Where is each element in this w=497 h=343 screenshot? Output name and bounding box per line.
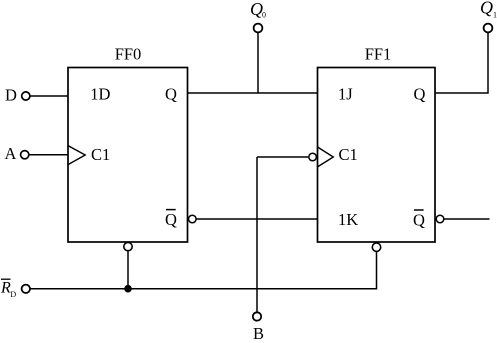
input terminal B [253,312,264,343]
wire A to FF0 clock [29,154,68,156]
svg-text:FF0: FF0 [115,45,142,64]
wire FF0 reset to RD line [127,251,129,289]
svg-text:Q: Q [414,84,426,103]
wire D to FF0 1D pin [30,95,68,97]
input terminal A [5,144,29,163]
wire RD riser to FF1 reset [376,251,378,289]
inversion bubble FF1 clock [309,153,317,161]
svg-text:Q: Q [165,210,177,229]
svg-text:C1: C1 [91,145,110,164]
pin label Qbar (FF0) [165,210,177,230]
wire Q0 stem [257,32,259,93]
svg-text:1K: 1K [338,210,358,229]
inversion bubble FF0 reset [124,242,132,250]
clock triangle FF1 [318,147,334,167]
flip-flop FF0 body [68,68,188,243]
flip-flop FF1 body [318,68,436,243]
junction dot on RD line [124,285,132,293]
wire B vertical [256,157,258,312]
svg-text:R: R [0,279,11,296]
wire FF1 Qbar stub [444,218,490,220]
wire B to FF1 clock [257,156,309,158]
svg-text:FF1: FF1 [365,45,392,64]
svg-text:B: B [253,324,264,343]
svg-text:Q: Q [165,84,177,103]
svg-text:D: D [5,86,17,105]
wire RD bus [30,288,377,290]
svg-text:Q: Q [413,210,425,229]
svg-text:1: 1 [493,10,497,19]
svg-text:C1: C1 [339,145,358,164]
clock triangle FF0 [68,146,85,165]
output terminal Q1 [480,0,497,32]
svg-text:0: 0 [262,11,266,20]
pin label Qbar (FF1) [413,210,425,229]
output terminal Q0 [250,0,266,32]
input terminal D [5,86,30,105]
svg-text:D: D [10,290,16,299]
inversion bubble FF1 reset [372,243,380,251]
svg-text:A: A [5,144,17,163]
wire FF0 Q to FF1 1J [188,92,318,94]
input terminal RD [0,279,30,299]
svg-text:Q: Q [480,0,493,18]
svg-text:1J: 1J [338,85,353,104]
inversion bubble FF0 Qbar [189,215,197,223]
inversion bubble FF1 Qbar [436,215,444,223]
wire FF1 Q output [435,32,488,93]
wire FF0 Qbar to FF1 1K [196,218,317,220]
svg-text:1D: 1D [90,85,110,104]
